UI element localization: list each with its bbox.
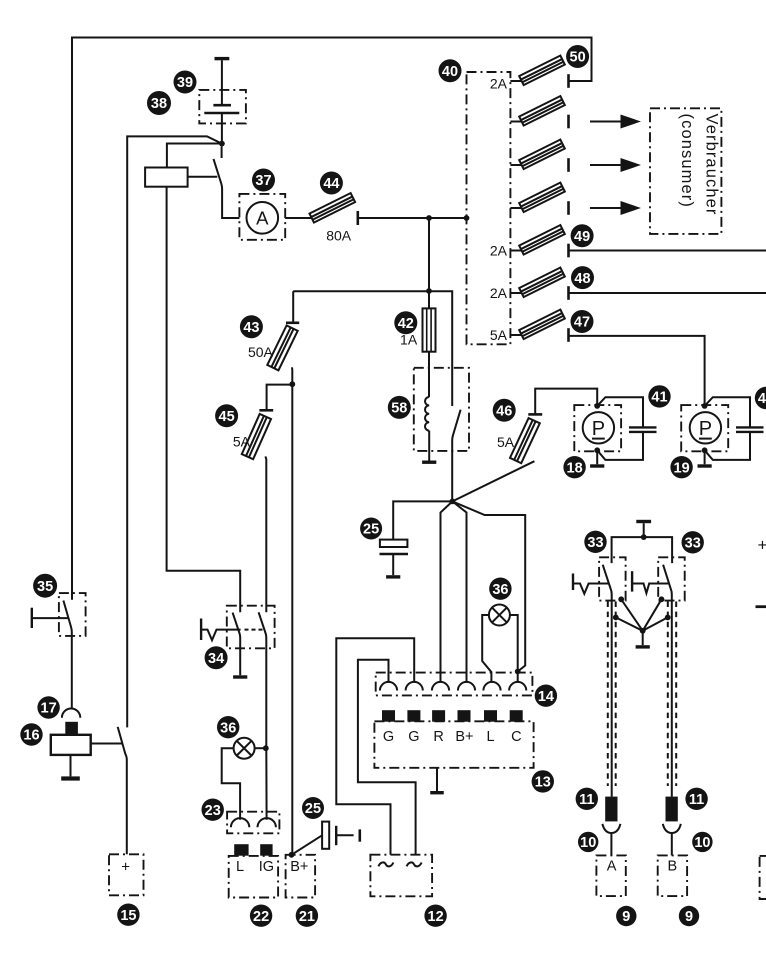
svg-text:37: 37 <box>255 173 271 189</box>
wire fuse 45 bottom to switch 34 <box>264 456 267 612</box>
battery switch blade <box>118 727 127 854</box>
label badge 43 <box>240 315 263 338</box>
ammeter box A37 <box>239 194 285 240</box>
svg-text:43: 43 <box>243 320 259 336</box>
svg-text:50A: 50A <box>248 344 274 360</box>
label badge 58 <box>388 396 411 419</box>
ground (inverted terminal) above capacitor 39 <box>215 57 230 60</box>
ground capacitor 25 <box>386 575 400 578</box>
svg-text:2A: 2A <box>490 75 508 91</box>
terminal bar fuse row 2 right <box>567 115 570 129</box>
label badge 33a <box>584 531 606 553</box>
svg-text:41: 41 <box>758 391 766 407</box>
svg-text:2A: 2A <box>490 242 508 258</box>
suppressor 11 right <box>666 797 678 822</box>
terminal bar fuse 45 top <box>259 409 273 412</box>
svg-text:B+: B+ <box>455 729 473 745</box>
svg-text:47: 47 <box>574 315 590 331</box>
fuse Fc <box>519 183 565 212</box>
svg-text:58: 58 <box>391 401 407 417</box>
ground block 13 <box>430 791 444 794</box>
connector contact 14 pin 3 <box>432 682 449 691</box>
regulator block 13 <box>374 721 533 768</box>
consumer box (Verbraucher) <box>650 108 721 234</box>
wire to fuse 43 top <box>292 291 294 323</box>
capacitor 39 plates <box>204 105 239 113</box>
label badge 15 <box>117 904 139 926</box>
wire 33 left actuator link <box>573 584 609 594</box>
connector contact 14 pin 2 <box>406 682 423 691</box>
wire lamp 36 left lead <box>482 615 491 683</box>
svg-text:IG: IG <box>259 859 274 875</box>
wire capacitor 39 to node <box>221 113 223 144</box>
node node under fuse 43 <box>289 381 295 387</box>
fuse F50 <box>519 56 565 85</box>
wire fuse 48 output <box>569 292 766 294</box>
svg-text:22: 22 <box>253 909 269 925</box>
wire ammeter to fuse 44 <box>285 217 311 219</box>
label badge 34 <box>205 646 228 669</box>
node 33 left lower tap <box>613 615 619 621</box>
label badge 44 <box>320 172 343 195</box>
terminal bar 33 right actuator <box>631 571 633 591</box>
wire pump 18 to capacitor 41 top <box>597 397 643 427</box>
svg-text:33: 33 <box>587 535 603 551</box>
alternator winding symbols <box>378 862 421 866</box>
node junction relay38/cap39 <box>219 141 225 147</box>
svg-text:19: 19 <box>674 460 690 476</box>
svg-text:P: P <box>592 418 605 440</box>
wire 33 supply bus <box>612 523 673 563</box>
relay 58 switch blade <box>452 410 460 502</box>
fusebox 40 <box>467 72 511 344</box>
connector contact 14 pin 5 <box>483 682 500 691</box>
svg-text:48: 48 <box>574 271 590 287</box>
terminal pin 17 pin <box>65 722 78 735</box>
terminal bar fuse row 1 right <box>567 74 570 88</box>
terminal bar switch 34 actuator <box>200 619 202 641</box>
label badge 41b <box>755 387 766 409</box>
alternator 12 <box>370 855 432 897</box>
terminal bar fuse 46 top <box>528 413 542 416</box>
wire feed to 50A fuse and relay 58 switch <box>293 291 452 406</box>
svg-text:5A: 5A <box>490 327 508 343</box>
svg-text:34: 34 <box>208 651 224 667</box>
node node 33 bus <box>641 534 647 540</box>
node 33 right upper tap <box>659 596 665 602</box>
capacitor C41 (pump 18) <box>629 427 657 432</box>
wire alternator right winding to pin 1 <box>358 660 416 855</box>
ground pump 18 <box>590 464 604 467</box>
wire pump 19 ground lead <box>704 450 706 464</box>
svg-text:39: 39 <box>177 75 193 91</box>
svg-text:A: A <box>607 859 617 875</box>
switch box 35 <box>59 593 86 636</box>
wire branch to fuse 45 <box>267 385 293 411</box>
plug connector 10 right <box>663 824 681 856</box>
wire ignition cable shield at 607.8 <box>607 602 609 787</box>
wire ground to capacitor 39 <box>221 60 223 104</box>
svg-text:35: 35 <box>37 579 53 595</box>
wire tap to common ground 1 <box>621 599 643 631</box>
label badge 25a <box>360 518 382 540</box>
label badge 48 <box>571 266 594 289</box>
connector contact 23 pin IG <box>258 818 276 827</box>
battery minus mark <box>756 605 766 608</box>
wire switch 35 actuator link <box>32 617 68 619</box>
svg-text:G: G <box>408 729 419 745</box>
node node lamp36b/switch34 <box>263 745 269 751</box>
wire relay 16 ground lead <box>70 755 72 777</box>
fuse F47 <box>519 310 565 339</box>
wire tap to common ground 4 <box>643 617 668 630</box>
wire node to connector 14 pin 4 <box>452 501 466 682</box>
label badge 36b <box>217 716 239 738</box>
label badge 47 <box>571 310 594 333</box>
svg-text:25: 25 <box>363 522 379 538</box>
svg-text:B: B <box>667 859 677 875</box>
fuse F42 1A <box>423 308 436 351</box>
svg-text:10: 10 <box>694 835 710 851</box>
svg-text:Verbraucher: Verbraucher <box>703 114 721 216</box>
wire line to B+ terminal <box>291 384 293 855</box>
wire pump 18 ground lead <box>596 450 598 464</box>
wire tap to common ground 3 <box>643 599 662 631</box>
terminal bar fuse row 5 right <box>567 244 570 258</box>
capacitor 25b plates <box>322 822 336 849</box>
svg-text:12: 12 <box>428 909 444 925</box>
svg-text:15: 15 <box>120 908 136 924</box>
spark plug 9 C (cut) <box>760 856 766 899</box>
capacitor 25 plates <box>380 540 409 554</box>
switch 33 right blade <box>663 565 672 797</box>
wire node to fuse 46 <box>452 461 534 501</box>
svg-text:R: R <box>433 729 443 745</box>
pump P18 <box>583 412 614 443</box>
label badge 10b <box>692 832 712 852</box>
connector contact inline connector 17 <box>62 709 80 718</box>
label badge 25b <box>302 797 324 819</box>
svg-text:9: 9 <box>685 909 693 925</box>
label badge 19 <box>670 456 692 478</box>
arrow to consumer <box>590 201 641 215</box>
wire tap to common ground 2 <box>616 617 643 630</box>
wire alternator left winding to pin 2 <box>336 638 414 854</box>
label badge 11a <box>576 788 598 810</box>
label badge 37 <box>252 169 275 192</box>
pump P19 <box>690 412 721 443</box>
switch 33 left blade <box>603 565 612 797</box>
node pump 19 bottom contact <box>702 447 708 453</box>
switch 34 left blade <box>233 613 241 676</box>
label badge 9b <box>679 906 699 926</box>
ammeter 37 <box>246 202 278 234</box>
fuse Fb <box>519 140 565 169</box>
switch 35 blade <box>63 601 71 709</box>
terminal block 22 <box>229 856 278 898</box>
wire fuse 47 output to pump 19 <box>569 336 705 406</box>
wire capacitor 25b lead <box>292 835 323 855</box>
svg-text:P: P <box>699 418 712 440</box>
svg-text:11: 11 <box>579 792 594 808</box>
wire capacitor 25 to ground <box>392 554 394 575</box>
suppressor 11 left <box>605 797 617 822</box>
terminal pin 22 pin L <box>234 844 248 856</box>
svg-text:11: 11 <box>689 792 704 808</box>
svg-text:B+: B+ <box>290 859 308 875</box>
ground switches 33 <box>636 645 650 648</box>
wire main supply from battery node to top border and fuse 50 return <box>72 38 592 600</box>
wire relay 38 actuating link <box>188 176 218 178</box>
wire relay 58 coil to ground <box>428 431 430 461</box>
label badge 39 <box>174 71 197 94</box>
pump box 19 <box>681 405 728 451</box>
svg-text:(consumer): (consumer) <box>678 114 696 208</box>
label badge 17 <box>37 696 59 718</box>
svg-text:49: 49 <box>574 229 590 245</box>
terminal pin 13 pin at 464 <box>458 710 471 722</box>
wire switch 34 actuator link <box>201 630 241 641</box>
terminal pin 13 pin at 388.5 <box>382 710 395 722</box>
ground switch 34 <box>233 675 247 678</box>
wire fusebox stub row 6 <box>510 292 521 294</box>
relay 38 coil <box>145 168 188 187</box>
svg-text:80A: 80A <box>326 228 352 244</box>
wire fusebox stub row 3 <box>510 164 521 166</box>
svg-text:+: + <box>758 536 766 555</box>
svg-text:13: 13 <box>535 775 551 791</box>
arrow to consumer <box>590 158 641 172</box>
node node on fusebox border <box>464 215 470 221</box>
svg-text:5A: 5A <box>497 434 515 450</box>
svg-text:45: 45 <box>219 409 235 425</box>
relay 58 coil <box>425 397 429 431</box>
fuse Fa <box>519 96 565 125</box>
relay 38 switch blade <box>214 159 240 218</box>
label badge 18 <box>563 456 585 478</box>
wire lamp 36b left lead <box>222 748 240 820</box>
fuse F46 5A <box>510 418 540 463</box>
plug connector 10 left <box>602 824 620 856</box>
svg-text:36: 36 <box>492 582 508 598</box>
terminal block 21 (B+) <box>286 855 316 898</box>
label badge 50 <box>566 45 589 68</box>
wire lamp 36 right lead <box>510 615 518 683</box>
terminal pin 13 pin at 438.6 <box>432 710 445 722</box>
svg-text:G: G <box>383 729 394 745</box>
fuse F49 <box>519 225 565 254</box>
svg-text:18: 18 <box>567 460 583 476</box>
wire fusebox stub row 5 <box>510 250 521 252</box>
node node lamp36/pin6 <box>515 669 521 675</box>
connector block 14 <box>376 673 533 696</box>
node node B+ <box>289 852 295 858</box>
wire relay 38 coil bottom to switch 34 <box>167 187 241 613</box>
svg-text:36: 36 <box>220 720 236 736</box>
node node bus/50A feed <box>426 288 432 294</box>
wire block 13 ground lead <box>436 768 438 791</box>
wire relay 38 coil to node <box>167 144 222 168</box>
svg-text:25: 25 <box>305 801 321 817</box>
label badge 36a <box>489 578 511 600</box>
connector contact 14 pin 1 <box>380 682 397 691</box>
label badge 12 <box>424 905 446 927</box>
wire ignition cable shield at 667.8 <box>667 602 669 787</box>
fuse F48 <box>519 268 565 297</box>
node pump 18 top contact <box>594 403 600 409</box>
label badge 42 <box>394 311 417 334</box>
label badge 38 <box>147 91 171 115</box>
terminal bar fuse row 3 right <box>567 158 570 172</box>
svg-text:10: 10 <box>580 835 596 851</box>
ground pump 19 <box>698 464 712 467</box>
lamp lamp 36 (charge indicator) <box>489 605 510 626</box>
svg-text:16: 16 <box>23 728 39 744</box>
svg-text:40: 40 <box>442 64 458 80</box>
wire ignition cable shield at 615.7 <box>615 602 617 787</box>
node distribution node <box>450 499 456 505</box>
wire ignition cable shield at 676.2 <box>675 602 677 787</box>
label badge 23 <box>202 799 224 821</box>
wire pump 19 to capacitor 41 top <box>705 397 750 427</box>
capacitor box C39 <box>199 90 246 124</box>
label badge 33b <box>682 531 704 553</box>
label badge 21 <box>296 905 318 927</box>
terminal bar 33 left actuator <box>572 574 574 591</box>
terminal bar fuse row 6 right <box>567 286 570 300</box>
svg-text:21: 21 <box>299 909 315 925</box>
wire fuse 46 to pump 18 <box>535 389 597 415</box>
label badge 9a <box>616 906 636 926</box>
terminal pin 13 pin at 516.2 <box>510 710 523 722</box>
svg-text:L: L <box>486 729 494 745</box>
svg-text:1A: 1A <box>400 331 418 347</box>
label badge 13 <box>532 770 554 792</box>
svg-text:A: A <box>256 207 269 228</box>
wire relay 16 actuator link <box>91 743 123 745</box>
label badge 11b <box>685 788 707 810</box>
wire fuse 44 to fusebox <box>358 217 467 219</box>
wire bus down to fuse 42 <box>428 218 430 308</box>
svg-text:C: C <box>511 729 521 745</box>
switch box 33 right <box>658 557 685 600</box>
node 33 left upper tap <box>618 596 624 602</box>
node pump 18 bottom contact <box>594 447 600 453</box>
terminal bar fuse row 7 right <box>567 328 570 342</box>
wire node to capacitor 25 <box>393 501 452 539</box>
wire fusebox stub row 4 <box>510 207 521 209</box>
terminal bar fuse 44 right <box>356 211 359 225</box>
ground relay 16 <box>61 776 80 780</box>
label badge 45 <box>215 404 238 427</box>
node 33 right lower tap <box>665 615 671 621</box>
arrow to consumer <box>590 115 641 129</box>
wire relay 38 switch fixed contact <box>221 147 223 159</box>
svg-text:38: 38 <box>151 96 167 112</box>
ground (inverted terminal) terminal above 33 <box>636 520 651 523</box>
wire switch 34 coupling (dashed) <box>245 629 265 631</box>
wire node to connector 14 pin 6 <box>452 501 525 671</box>
terminal bar fuse 43 top <box>286 321 299 324</box>
label badge 41a <box>648 385 670 407</box>
spark plug 9 A <box>596 855 625 896</box>
wire branch to relay 38 junction <box>127 136 222 727</box>
wire fuse 42 to relay 58 coil <box>428 352 430 397</box>
terminal pin 22 pin IG <box>260 844 272 856</box>
svg-text:23: 23 <box>205 803 221 819</box>
svg-text:41: 41 <box>651 390 667 406</box>
capacitor C41 (pump 19) <box>736 427 764 432</box>
wire 33 right actuator link <box>632 584 668 594</box>
svg-text:+: + <box>121 858 130 875</box>
relay box K58 <box>414 368 469 451</box>
svg-text:5A: 5A <box>233 433 251 449</box>
wire 33 ground lead <box>642 631 644 645</box>
svg-text:17: 17 <box>41 701 57 717</box>
label badge 35 <box>33 574 57 598</box>
wire fusebox stub row 1 <box>510 80 521 82</box>
wire capacitor 25b right lead <box>336 834 353 836</box>
wire fusebox stub row 2 <box>510 121 521 123</box>
svg-text:33: 33 <box>685 536 701 552</box>
fuse F45 5A <box>242 414 271 459</box>
starter relay 16 coil <box>51 735 91 755</box>
svg-text:50: 50 <box>570 50 586 66</box>
battery 15 <box>109 854 144 895</box>
label badge 16 <box>20 723 42 745</box>
svg-text:L: L <box>236 859 244 875</box>
wire switch 34 to connector 23 <box>265 748 267 820</box>
spark plug 9 B <box>658 855 687 896</box>
fuse F43 50A <box>267 325 297 370</box>
label badge 22 <box>250 905 272 927</box>
label badge 14 <box>535 685 557 707</box>
switch box 34 <box>227 606 275 649</box>
connector block 23 <box>227 812 279 834</box>
wire fuse 49 output <box>569 250 766 252</box>
connector contact 14 pin 6 <box>509 682 526 691</box>
fuse F44 80A <box>309 193 355 222</box>
svg-text:46: 46 <box>496 404 512 420</box>
wire fuse 43 bottom <box>291 367 293 384</box>
label badge 46 <box>493 399 516 422</box>
wire fusebox stub row 7 <box>510 334 521 336</box>
svg-text:14: 14 <box>538 689 554 705</box>
wire node to connector 14 pin 3 <box>441 501 453 682</box>
wire lamp 36b right lead <box>255 747 266 749</box>
terminal bar switch 35 actuator <box>31 608 33 628</box>
ground relay 58 <box>422 461 436 464</box>
label badge 10a <box>578 832 598 852</box>
pump box 18 <box>574 405 621 451</box>
svg-text:2A: 2A <box>490 285 508 301</box>
svg-text:9: 9 <box>622 909 630 925</box>
connector contact 23 pin L <box>231 818 249 827</box>
node pump 19 top contact <box>702 403 708 409</box>
node node common ground 33 <box>640 628 646 634</box>
switch 34 right blade <box>259 612 267 748</box>
svg-text:44: 44 <box>323 176 339 192</box>
wire pump 18 to capacitor 41 bottom <box>597 432 643 460</box>
terminal pin 13 pin at 490.5 <box>484 710 497 722</box>
label badge 40 <box>439 59 462 82</box>
svg-text:42: 42 <box>398 316 414 332</box>
connector contact 14 pin 4 <box>458 682 475 691</box>
wire pump 19 to capacitor 41 bottom <box>705 432 750 460</box>
terminal pin 13 pin at 413.9 <box>407 710 420 722</box>
lamp lamp 36 (oil indicator) <box>234 738 255 759</box>
label badge 49 <box>571 224 594 247</box>
